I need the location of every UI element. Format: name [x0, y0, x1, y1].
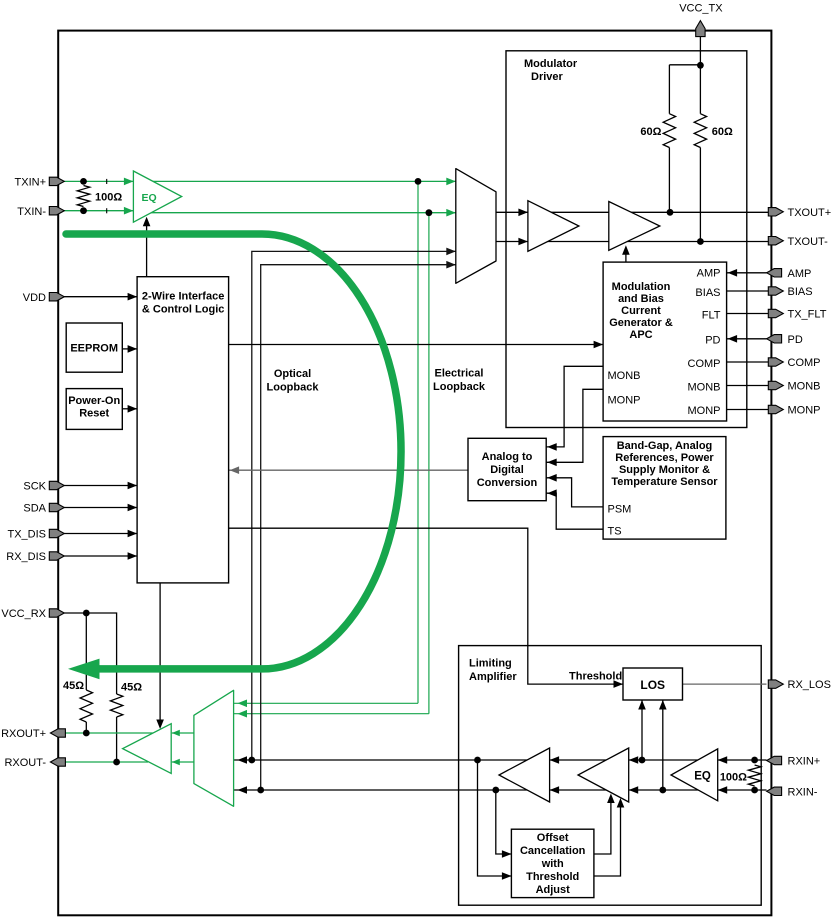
svg-text:COMP: COMP [688, 358, 721, 370]
svg-text:BIAS: BIAS [695, 287, 720, 299]
svg-text:Electrical: Electrical [435, 368, 484, 380]
svg-text:45Ω: 45Ω [63, 680, 84, 692]
svg-text:TXOUT-: TXOUT- [788, 236, 829, 248]
svg-text:Modulator: Modulator [524, 58, 578, 70]
svg-text:FLT: FLT [702, 309, 721, 321]
svg-text:VDD: VDD [23, 292, 46, 304]
svg-text:TXIN-: TXIN- [17, 206, 46, 218]
svg-text:45Ω: 45Ω [121, 682, 142, 694]
svg-text:PD: PD [705, 334, 720, 346]
svg-text:AMP: AMP [788, 268, 812, 280]
svg-text:PD: PD [788, 334, 803, 346]
svg-text:Optical: Optical [274, 368, 311, 380]
svg-text:2-Wire Interface: 2-Wire Interface [142, 291, 224, 303]
svg-text:Cancellation: Cancellation [520, 845, 586, 857]
svg-text:SCK: SCK [23, 481, 46, 493]
svg-text:Loopback: Loopback [433, 381, 486, 393]
svg-text:Power-On: Power-On [68, 395, 120, 407]
svg-text:RX_DIS: RX_DIS [6, 551, 46, 563]
svg-text:Temperature Sensor: Temperature Sensor [611, 476, 718, 488]
svg-text:Conversion: Conversion [477, 477, 538, 489]
svg-text:100Ω: 100Ω [95, 191, 122, 203]
svg-text:TX_FLT: TX_FLT [788, 309, 827, 321]
svg-text:Loopback: Loopback [267, 382, 320, 394]
svg-text:RXOUT-: RXOUT- [4, 757, 46, 769]
svg-text:VCC_RX: VCC_RX [1, 608, 46, 620]
svg-text:Reset: Reset [79, 408, 109, 420]
svg-text:Driver: Driver [531, 71, 564, 83]
svg-text:with: with [541, 858, 564, 870]
svg-text:EQ: EQ [142, 192, 157, 204]
svg-text:60Ω: 60Ω [640, 126, 661, 138]
svg-text:COMP: COMP [788, 357, 821, 369]
svg-text:BIAS: BIAS [788, 286, 813, 298]
svg-text:Digital: Digital [490, 464, 524, 476]
svg-text:Adjust: Adjust [536, 884, 571, 896]
svg-text:VCC_TX: VCC_TX [679, 3, 723, 15]
svg-text:TXIN+: TXIN+ [15, 177, 46, 189]
svg-text:AMP: AMP [697, 267, 721, 279]
svg-text:Threshold: Threshold [526, 871, 579, 883]
svg-text:RXIN+: RXIN+ [788, 756, 821, 768]
svg-text:Current: Current [621, 305, 661, 317]
svg-text:& Control Logic: & Control Logic [142, 304, 225, 316]
svg-text:100Ω: 100Ω [720, 772, 747, 784]
svg-text:Supply Monitor &: Supply Monitor & [619, 464, 710, 476]
svg-text:RXOUT+: RXOUT+ [1, 728, 46, 740]
svg-text:Amplifier: Amplifier [469, 671, 517, 683]
svg-text:Modulation: Modulation [612, 281, 671, 293]
svg-text:Threshold: Threshold [569, 671, 622, 683]
svg-text:PSM: PSM [608, 503, 632, 515]
svg-text:LOS: LOS [640, 678, 665, 692]
svg-text:APC: APC [629, 329, 652, 341]
svg-text:MONB: MONB [788, 381, 821, 393]
svg-text:RXIN-: RXIN- [788, 786, 818, 798]
svg-text:Limiting: Limiting [469, 658, 512, 670]
svg-text:TXOUT+: TXOUT+ [788, 207, 831, 219]
svg-text:References, Power: References, Power [615, 452, 714, 464]
svg-text:RX_LOS: RX_LOS [788, 679, 831, 691]
svg-text:Analog to: Analog to [482, 451, 533, 463]
svg-text:Generator &: Generator & [609, 317, 673, 329]
svg-text:SDA: SDA [23, 503, 46, 515]
svg-text:MONB: MONB [608, 370, 641, 382]
svg-text:MONB: MONB [688, 382, 721, 394]
svg-text:TS: TS [608, 526, 622, 538]
svg-text:60Ω: 60Ω [712, 126, 733, 138]
svg-text:and Bias: and Bias [618, 293, 664, 305]
svg-text:Band-Gap, Analog: Band-Gap, Analog [617, 440, 713, 452]
svg-text:MONP: MONP [688, 405, 721, 417]
svg-text:EEPROM: EEPROM [70, 343, 118, 355]
svg-text:TX_DIS: TX_DIS [7, 529, 46, 541]
svg-text:Offset: Offset [537, 832, 569, 844]
svg-text:EQ: EQ [694, 771, 711, 783]
svg-text:MONP: MONP [608, 395, 641, 407]
svg-text:MONP: MONP [788, 405, 821, 417]
